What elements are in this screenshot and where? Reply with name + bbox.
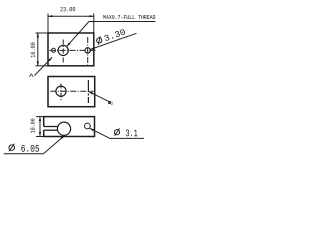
dimension text 10.00 rotated [31,119,35,133]
middle label [109,101,111,104]
dimension 10.00 line [39,117,41,137]
middle horizontal centerline [50,90,93,92]
label A leader [35,57,53,75]
dimension 16.00 extension lines [36,33,48,66]
vertical centerline right hole [87,37,89,65]
vertical centerline center hole [62,40,64,63]
dimension 10.00 extension lines [36,117,43,137]
top view part outline [48,33,94,66]
dia 3.30 text rotated [96,36,103,45]
middle vertical feature line [87,80,89,103]
label A text [29,73,34,77]
bottom view outline with open slot [44,117,95,137]
hole small left [52,48,56,52]
dimension text 16.00 rotated [31,43,35,58]
horizontal centerline top view [50,49,98,51]
dia 3.1 leader [90,128,111,138]
hole tapped center [58,45,68,55]
slot lines [44,127,58,131]
dimension text 23.00 [60,7,75,11]
middle view part outline [48,77,95,107]
hole right [85,48,90,53]
dia 6.05 text [9,144,15,152]
middle leader [89,92,110,102]
dia 6.05 leader [43,135,64,154]
middle vertical centerline hole [60,84,62,101]
thread note leader [67,22,89,47]
thread note underline [89,21,156,23]
dia 6.05 underline [4,153,44,155]
dia 3.1 underline [110,137,144,139]
dimension 23.00 extension lines [48,14,94,33]
dimension 23.00 line [48,15,94,17]
keyhole circle [57,122,70,135]
dia 3.1 text [114,128,119,135]
dia 3.30 leader [90,33,136,49]
middle view hole [56,86,66,96]
small hole right [85,123,91,129]
thread note text [103,15,155,19]
dimension 16.00 line [37,33,39,66]
